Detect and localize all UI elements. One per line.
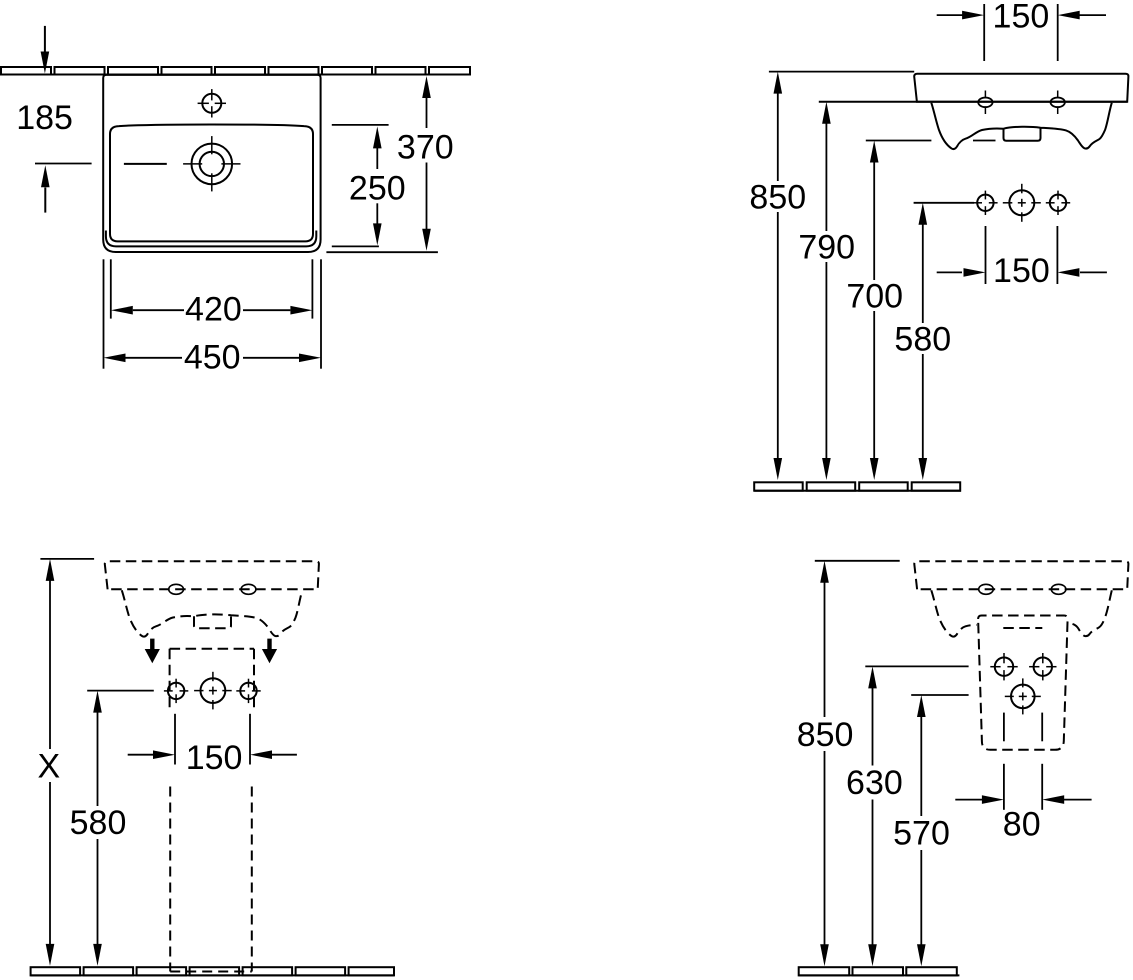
svg-text:250: 250	[349, 169, 406, 207]
svg-text:150: 150	[186, 739, 243, 777]
svg-text:580: 580	[894, 321, 951, 359]
svg-text:450: 450	[184, 339, 241, 377]
svg-text:700: 700	[846, 278, 903, 316]
svg-text:570: 570	[893, 815, 950, 853]
svg-text:580: 580	[70, 804, 127, 842]
svg-text:850: 850	[749, 179, 806, 217]
svg-text:370: 370	[397, 129, 454, 167]
svg-text:185: 185	[16, 99, 73, 137]
svg-text:790: 790	[798, 229, 855, 267]
svg-text:150: 150	[993, 0, 1050, 35]
svg-text:850: 850	[797, 716, 854, 754]
svg-text:630: 630	[846, 764, 903, 802]
svg-text:X: X	[37, 748, 60, 786]
svg-text:80: 80	[1003, 805, 1041, 843]
svg-text:150: 150	[993, 252, 1050, 290]
svg-text:420: 420	[185, 291, 242, 329]
